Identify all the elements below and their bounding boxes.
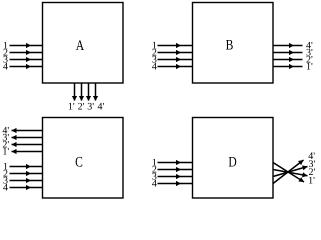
output wire 3' from B [273, 52, 303, 54]
crossing output wire 4' from D [273, 160, 304, 184]
svg-text:1': 1' [306, 61, 313, 72]
output wire 1' from B [273, 66, 303, 68]
svg-text:1': 1' [2, 146, 9, 157]
svg-text:2': 2' [78, 101, 85, 112]
svg-text:4: 4 [3, 61, 8, 72]
box D [193, 118, 274, 199]
svg-text:D: D [228, 154, 236, 170]
input wire 3 to B [158, 59, 193, 61]
svg-text:4': 4' [97, 101, 104, 112]
input wire 3 to A [10, 59, 43, 61]
output wire 2' from A (down) [81, 83, 83, 101]
input wire 4 to A [10, 66, 43, 68]
input wire 3 to D [158, 176, 193, 178]
svg-text:B: B [226, 38, 234, 54]
input wire 1 to D [158, 162, 193, 164]
svg-text:C: C [75, 155, 83, 171]
output wire 3' from C (left) [12, 137, 43, 139]
svg-text:3': 3' [87, 101, 94, 112]
svg-text:4: 4 [3, 182, 8, 193]
input wire 1 to B [158, 45, 193, 47]
output wire 2' from B [273, 59, 303, 61]
input wire 4 to B [158, 66, 193, 68]
svg-text:4: 4 [152, 178, 157, 189]
output wire 3' from A (down) [88, 83, 90, 101]
input wire 2 to B [158, 52, 193, 54]
output wire 4' from A (down) [95, 83, 97, 101]
input wire 4 to C [10, 187, 43, 189]
output wire 1' from A (down) [74, 83, 76, 101]
box B [193, 3, 274, 84]
box A [43, 3, 124, 84]
output wire 2' from C (left) [12, 144, 43, 146]
input wire 4 to D [158, 183, 193, 185]
output wire 1' from C (left) [12, 151, 43, 153]
input wire 1 to A [10, 45, 43, 47]
svg-text:1': 1' [68, 101, 75, 112]
box C [43, 118, 124, 199]
input wire 2 to C [10, 173, 43, 175]
input wire 3 to C [10, 180, 43, 182]
output wire 4' from C (left) [12, 130, 43, 132]
crossing output wire 3' from D [273, 167, 308, 177]
svg-text:A: A [76, 38, 85, 54]
crossing output wire 2' from D [273, 170, 308, 176]
crossing output wire 1' from D [273, 163, 304, 183]
svg-text:1': 1' [308, 176, 315, 187]
input wire 2 to D [158, 169, 193, 171]
output wire 4' from B [273, 45, 303, 47]
svg-text:4: 4 [152, 61, 157, 72]
input wire 1 to C [10, 166, 43, 168]
input wire 2 to A [10, 52, 43, 54]
